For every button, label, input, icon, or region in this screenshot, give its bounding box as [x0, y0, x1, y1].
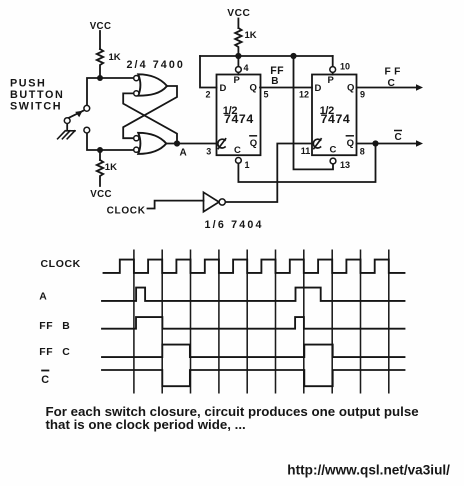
- svg-text:FF: FF: [39, 321, 53, 332]
- svg-text:FF: FF: [39, 347, 53, 358]
- svg-text:2: 2: [206, 90, 211, 100]
- svg-text:P: P: [328, 75, 335, 86]
- svg-text:BUTTON: BUTTON: [10, 89, 64, 101]
- svg-text:B: B: [62, 321, 71, 332]
- svg-text:12: 12: [299, 90, 309, 100]
- svg-text:VCC: VCC: [90, 189, 112, 200]
- svg-text:PUSH: PUSH: [10, 77, 46, 89]
- svg-text:8: 8: [360, 147, 365, 157]
- svg-text:P: P: [234, 75, 241, 86]
- svg-text:A: A: [39, 292, 48, 303]
- svg-text:D: D: [220, 83, 227, 94]
- svg-text:1K: 1K: [105, 162, 117, 173]
- svg-text:FF: FF: [385, 66, 404, 77]
- svg-text:A: A: [180, 147, 187, 158]
- svg-text:10: 10: [340, 62, 350, 72]
- svg-text:CLOCK: CLOCK: [107, 206, 146, 217]
- svg-text:7474: 7474: [224, 112, 254, 126]
- svg-text:B: B: [271, 76, 278, 87]
- svg-text:11: 11: [301, 146, 311, 156]
- svg-text:1: 1: [245, 160, 250, 170]
- svg-text:C: C: [330, 145, 337, 156]
- svg-text:C: C: [388, 78, 396, 89]
- svg-text:1K: 1K: [109, 52, 121, 63]
- svg-text:http://www.qsl.net/va3iul/: http://www.qsl.net/va3iul/: [287, 463, 450, 478]
- svg-text:D: D: [315, 83, 322, 94]
- svg-text:C: C: [41, 374, 50, 386]
- svg-text:9: 9: [360, 90, 365, 100]
- svg-text:3: 3: [206, 147, 211, 157]
- svg-text:CLOCK: CLOCK: [41, 258, 81, 270]
- svg-text:5: 5: [264, 90, 269, 100]
- svg-text:that is one clock period wide,: that is one clock period wide, ...: [46, 417, 246, 432]
- svg-text:4: 4: [244, 63, 249, 73]
- svg-text:VCC: VCC: [227, 8, 250, 19]
- svg-text:2/4 7400: 2/4 7400: [127, 59, 185, 71]
- svg-text:VCC: VCC: [90, 21, 112, 32]
- svg-text:Q: Q: [347, 138, 354, 149]
- svg-text:1K: 1K: [245, 30, 257, 41]
- svg-text:C: C: [234, 145, 241, 156]
- svg-text:Q: Q: [250, 83, 257, 94]
- svg-text:1/6 7404: 1/6 7404: [205, 219, 264, 231]
- svg-text:C: C: [395, 132, 402, 143]
- svg-text:SWITCH: SWITCH: [10, 101, 62, 113]
- svg-text:C: C: [62, 347, 71, 358]
- svg-text:Q: Q: [250, 138, 257, 149]
- svg-text:13: 13: [340, 160, 350, 170]
- svg-text:Q: Q: [347, 83, 354, 94]
- svg-text:7474: 7474: [321, 112, 351, 126]
